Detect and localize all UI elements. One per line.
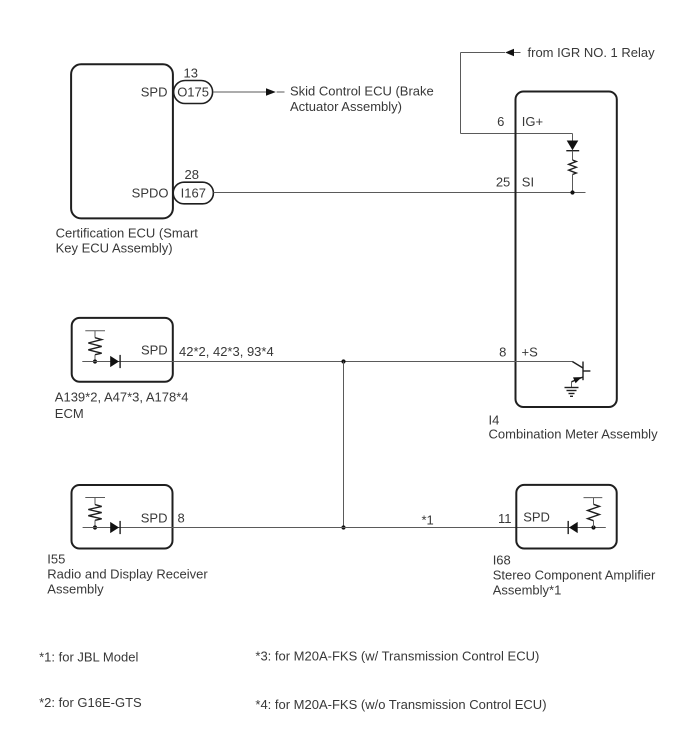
svg-text:Radio and Display Receiver: Radio and Display Receiver — [47, 567, 208, 582]
svg-text:11: 11 — [498, 511, 512, 526]
power bar symbol (I55) — [85, 498, 105, 505]
wire SPD net from ECM to meter +S — [82, 361, 572, 363]
svg-text:13: 13 — [184, 66, 198, 81]
wire from O175 to arrow — [213, 91, 266, 93]
wire IG+ to diode — [572, 134, 574, 141]
meter I4 Combination Meter Assembly box — [516, 92, 617, 408]
svg-text:28: 28 — [185, 167, 199, 182]
svg-text:SPD: SPD — [141, 343, 168, 358]
svg-text:SPD: SPD — [141, 84, 168, 99]
diode D4 (I68, pointing left) — [568, 521, 578, 534]
svg-text:I55: I55 — [47, 552, 65, 567]
svg-text:SPD: SPD — [141, 511, 168, 526]
wire stub to relay label — [514, 52, 521, 54]
wire from IGR NO. 1 Relay (horizontal) — [461, 52, 506, 54]
svg-text:from IGR NO. 1 Relay: from IGR NO. 1 Relay — [528, 45, 656, 60]
svg-text:Skid Control ECU (Brake: Skid Control ECU (Brake — [290, 84, 434, 99]
svg-text:6: 6 — [497, 114, 504, 129]
junction on SI net — [570, 190, 574, 194]
junction node B (bottom net) — [341, 525, 345, 529]
svg-text:Stereo Component Amplifier: Stereo Component Amplifier — [493, 568, 656, 583]
svg-text:*1: *1 — [422, 513, 434, 528]
resistor R4 (I68 pull-up) — [588, 504, 600, 520]
junction in I68 — [591, 525, 595, 529]
transistor Q1 (in meter) — [572, 362, 591, 384]
svg-text:I167: I167 — [181, 185, 206, 200]
wire branch vertical — [343, 362, 345, 528]
junction in I55 — [93, 525, 97, 529]
wire stub after arrowhead — [277, 91, 285, 93]
wire SI net from I167 to combination meter — [213, 192, 585, 194]
svg-text:Key ECU Assembly): Key ECU Assembly) — [56, 241, 173, 256]
power bar symbol (ECM) — [85, 331, 105, 338]
svg-text:8: 8 — [178, 511, 185, 526]
svg-text:SPD: SPD — [523, 510, 550, 525]
svg-text:25: 25 — [496, 174, 510, 189]
svg-text:8: 8 — [499, 345, 506, 360]
svg-text:*4: for M20A-FKS (w/o Transmis: *4: for M20A-FKS (w/o Transmission Contr… — [255, 697, 546, 712]
svg-text:Actuator Assembly): Actuator Assembly) — [290, 99, 402, 114]
svg-text:*1: for JBL Model: *1: for JBL Model — [39, 649, 138, 664]
wire IG+ net — [461, 133, 573, 135]
arrowhead to Skid Control ECU — [266, 88, 276, 96]
resistor R3 (I55 pull-up) — [88, 505, 101, 521]
svg-text:IG+: IG+ — [522, 114, 543, 129]
resistor R2 (ECM pull-up) — [88, 338, 101, 355]
wire resistor to node — [593, 521, 595, 528]
svg-text:A139*2, A47*3, A178*4: A139*2, A47*3, A178*4 — [55, 390, 189, 405]
diode D2 (ECM, pointing right) — [110, 355, 120, 368]
svg-text:I68: I68 — [493, 553, 511, 568]
svg-text:*3: for M20A-FKS (w/ Transmiss: *3: for M20A-FKS (w/ Transmission Contro… — [255, 649, 539, 664]
wire emitter to ground — [571, 382, 573, 388]
svg-text:ECM: ECM — [55, 406, 84, 421]
svg-text:Assembly: Assembly — [47, 582, 104, 597]
wire bottom SPD net from I55 to I68 — [83, 527, 606, 529]
svg-text:Assembly*1: Assembly*1 — [493, 583, 562, 598]
ECM U2 box — [72, 318, 173, 382]
wire from IGR NO. 1 Relay (vertical) — [460, 53, 462, 134]
diode D1 (in meter, pointing down) — [566, 141, 579, 151]
connector oval O175 — [174, 81, 213, 104]
diode D3 (I55, pointing right) — [110, 521, 120, 534]
junction node A (SPD net / branch) — [341, 359, 345, 363]
power bar symbol (I68) — [584, 498, 603, 505]
svg-text:+S: +S — [522, 345, 539, 360]
svg-text:42*2, 42*3, 93*4: 42*2, 42*3, 93*4 — [179, 344, 274, 359]
wire resistor to node — [94, 520, 96, 527]
svg-text:Certification ECU (Smart: Certification ECU (Smart — [56, 226, 199, 241]
ECU U1 Certification ECU (Smart Key ECU Assembly) box — [71, 64, 173, 218]
svg-text:SI: SI — [522, 174, 534, 189]
amplifier U4 I68 Stereo Component Amplifier box — [516, 485, 616, 549]
wire resistor to node — [94, 355, 96, 362]
ground — [565, 388, 579, 397]
svg-text:*2: for G16E-GTS: *2: for G16E-GTS — [39, 695, 142, 710]
svg-text:SPDO: SPDO — [132, 185, 169, 200]
receiver U3 I55 Radio and Display Receiver box — [72, 485, 173, 549]
resistor R1 (in meter) — [569, 160, 577, 174]
junction in ECM — [93, 359, 97, 363]
arrowhead from IGR relay — [505, 49, 514, 57]
wire resistor to SI — [572, 175, 574, 193]
svg-text:I4: I4 — [489, 413, 500, 428]
svg-text:O175: O175 — [177, 84, 209, 99]
connector oval I167 — [173, 182, 213, 204]
wire diode to resistor — [572, 151, 574, 160]
svg-text:Combination Meter Assembly: Combination Meter Assembly — [489, 427, 659, 442]
